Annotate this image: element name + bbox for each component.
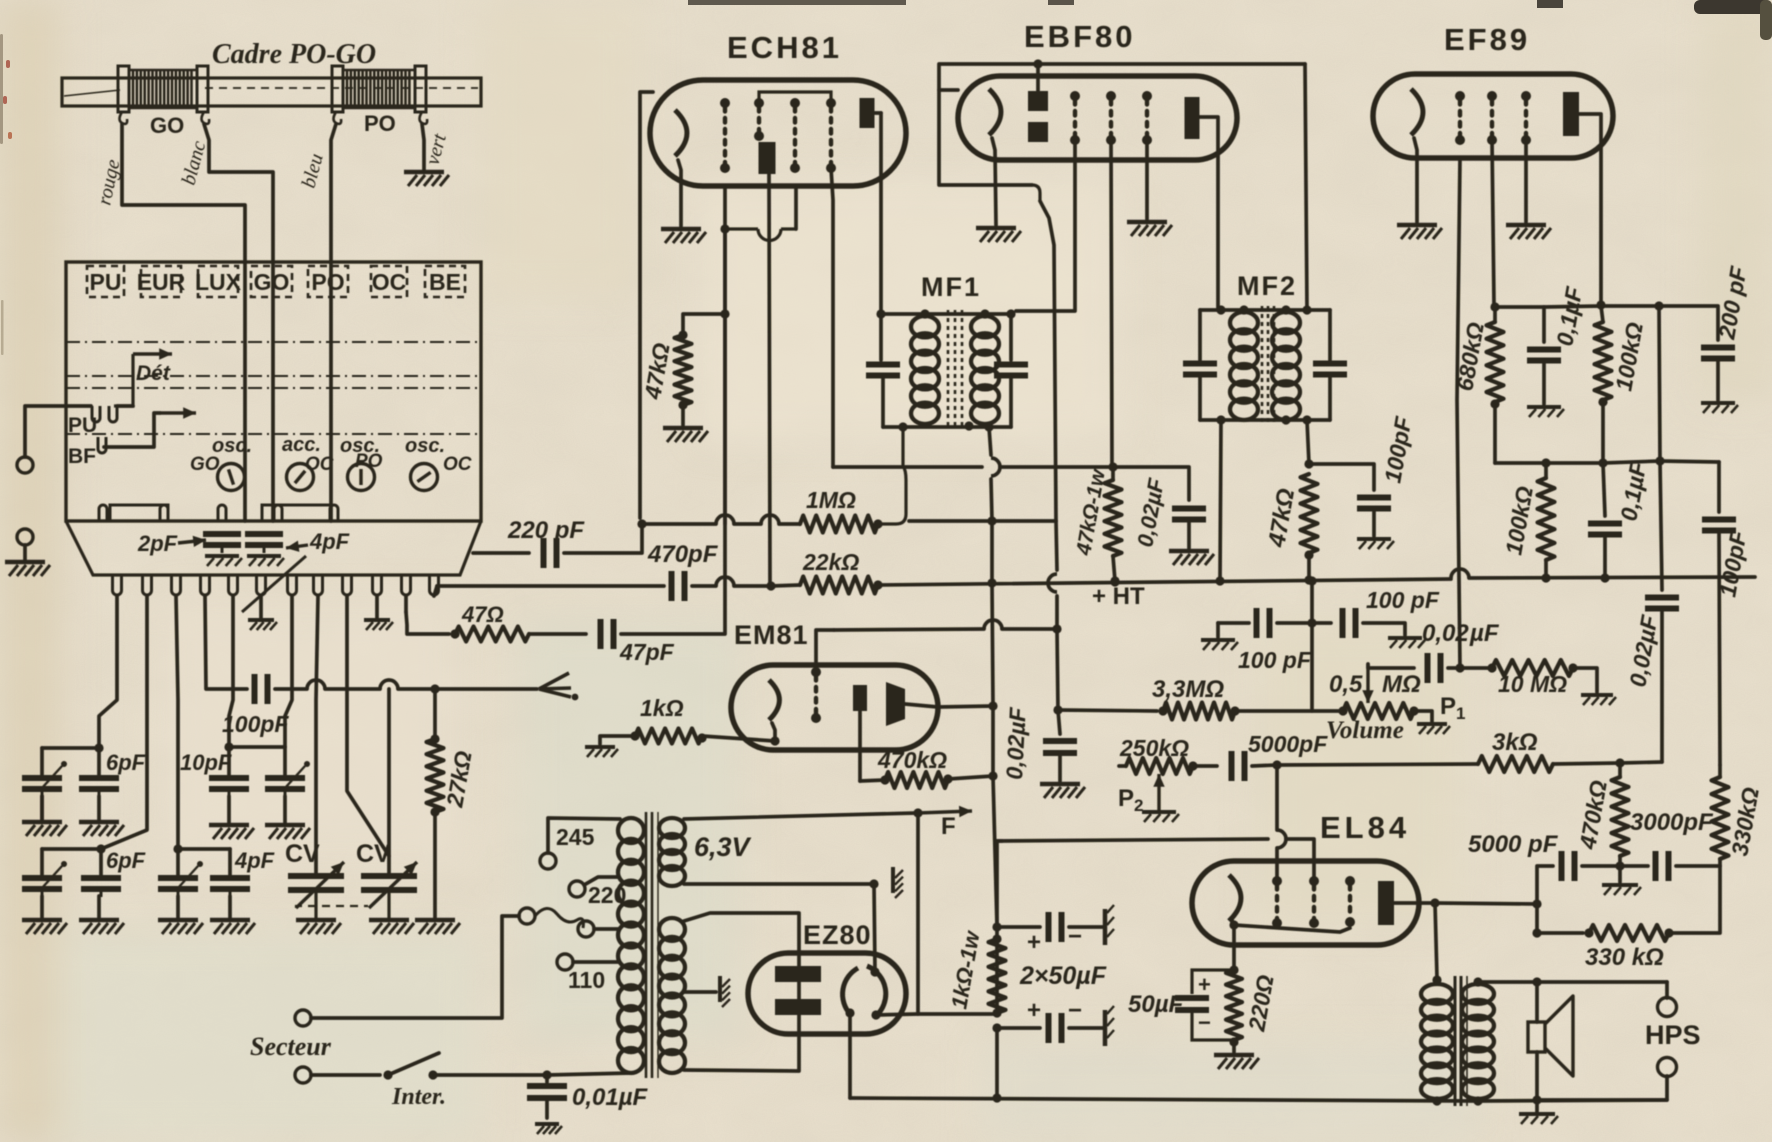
node MF2 bottom right — [1302, 415, 1311, 424]
capacitor MF1 right — [994, 365, 1028, 376]
wire screen line — [833, 465, 982, 469]
wire 50uF bot b — [1069, 1026, 1105, 1030]
svg-text:LUX: LUX — [195, 269, 242, 295]
hop AGC over bus — [1048, 574, 1057, 592]
svg-text:BE: BE — [429, 269, 461, 295]
grid EBF80 g3 — [1142, 91, 1152, 145]
wire row2 left pair — [42, 847, 101, 851]
wire HT bus b — [734, 584, 771, 588]
wire 1k to cathode — [702, 736, 775, 741]
node row1 right — [224, 742, 233, 751]
capacitor 0,1uF lower — [1588, 524, 1622, 535]
resistor 330kOhm fb — [1589, 925, 1669, 941]
wire 0,1uF upper gnd — [1542, 362, 1546, 404]
grid ECH81 g3 — [790, 98, 800, 173]
wire EL84 cathode down — [1232, 925, 1236, 970]
node bus 22k right — [873, 580, 882, 589]
svg-text:470kΩ: 470kΩ — [877, 747, 947, 773]
wire top rail mid — [1544, 306, 1601, 307]
wire EL84 g1 feed — [1275, 765, 1279, 830]
ground 100pF a — [1201, 640, 1238, 650]
node A 470k line — [988, 771, 997, 780]
wire grid line right — [1277, 764, 1478, 765]
svg-text:4pF: 4pF — [309, 529, 350, 554]
wire 100pF left wire — [1218, 621, 1249, 625]
wire 100pF col to 330k — [1718, 765, 1722, 777]
2pF pointer — [178, 536, 206, 547]
ground 0,1uF upper — [1527, 407, 1564, 417]
wire 47pF to ECH81 g1 — [621, 186, 725, 634]
node MF2 47k bottom — [1304, 550, 1313, 559]
node OT primary top — [1432, 975, 1441, 984]
wire 100k anode bottom stub — [1601, 400, 1605, 463]
terminal fuse a — [519, 908, 535, 924]
node 470k g2 top — [1615, 758, 1624, 767]
terminal HPS top — [1658, 998, 1677, 1017]
trimmer arrow c — [42, 866, 62, 888]
svg-text:1MΩ: 1MΩ — [806, 487, 856, 513]
wire osc rail b — [734, 522, 761, 526]
capacitor MF2 right — [1313, 364, 1347, 375]
wire ECH81 g1 down — [723, 229, 727, 314]
wire 470k g2 top stub — [1618, 763, 1622, 777]
svg-text:5000 pF: 5000 pF — [1468, 831, 1559, 858]
wire g2row down — [1310, 581, 1314, 711]
node 680k top — [1490, 302, 1499, 311]
ground speaker line — [1519, 1114, 1558, 1124]
ground 47k — [663, 428, 708, 442]
node row2 left — [96, 844, 105, 853]
svg-text:Inter.: Inter. — [391, 1084, 446, 1110]
svg-text:6pF: 6pF — [106, 750, 146, 775]
node 250k right — [1188, 761, 1197, 770]
wire top rail right — [1601, 304, 1659, 308]
resistor 100kOhm lower — [1538, 478, 1555, 560]
switch unit box — [66, 262, 481, 521]
svg-text:Dét: Dét — [136, 362, 171, 385]
tube EBF80 envelope — [958, 76, 1237, 160]
fluorescent fan EM81 — [886, 682, 905, 726]
node MF1 coil1 top — [920, 309, 929, 318]
trimmer capacitor 6pF b — [79, 778, 119, 797]
ground under pin 261 — [248, 620, 277, 630]
wire pin318 down to CV1 — [316, 596, 318, 874]
node 27k top — [430, 684, 439, 693]
page edge smudges — [688, 0, 906, 5]
node 100k top — [1596, 300, 1605, 309]
resistor 250kOhm P2 — [1126, 758, 1193, 774]
node EL84 anode — [1430, 898, 1439, 907]
node rail 1659 — [1654, 301, 1663, 310]
svg-text:0,01µF: 0,01µF — [572, 1084, 649, 1111]
wire 47k MF2 to bus — [1307, 555, 1311, 580]
core output transformer — [1455, 976, 1467, 1106]
capacitor MF1 left — [866, 365, 900, 376]
wire F down to k — [916, 813, 920, 1014]
wire EBF80 left bracket — [939, 90, 1032, 185]
wire MF2 bottom rail — [1200, 418, 1330, 422]
svg-text:CV: CV — [285, 840, 320, 868]
svg-text:CV: CV — [356, 840, 391, 868]
wire pin117 down — [99, 596, 117, 748]
core mains transformer — [646, 812, 658, 1078]
coil MF1 primary — [911, 316, 939, 424]
trimmer arrow d — [178, 866, 198, 888]
node 680k bottom — [1490, 399, 1499, 408]
wire earth terminal — [23, 545, 27, 560]
wire 1659 down — [1659, 306, 1660, 461]
coil HT secondary — [659, 918, 685, 1073]
node MF1 bottom right — [984, 422, 993, 431]
wafer contact pin 2 — [143, 575, 152, 595]
node F line — [913, 808, 922, 817]
capacitor 470pF — [672, 571, 685, 601]
wire 100k lower to bus — [1544, 560, 1548, 578]
wire 47R to 47pF — [529, 632, 586, 636]
wire MF2 right side b — [1328, 376, 1332, 420]
grid EM81 — [811, 667, 821, 723]
ground 100pF b — [1388, 638, 1425, 648]
terminal 245V — [540, 853, 556, 869]
capacitor 0,1uF upper — [1527, 350, 1561, 361]
wire ground row1 d — [283, 796, 287, 823]
wafer contact pin 5 — [229, 575, 238, 595]
ground row1 b — [79, 822, 124, 836]
resistor 470kOhm g2 — [1612, 777, 1629, 856]
hop MF1 sec over screen line — [991, 458, 1000, 476]
PO left terminal loop — [334, 112, 342, 124]
wire 47k to ground — [681, 405, 685, 425]
svg-text:osc.: osc. — [212, 435, 252, 457]
ground 100pF det — [1357, 539, 1394, 549]
node 1M right — [873, 519, 882, 528]
wire B+ rail down — [995, 1028, 999, 1098]
ground row1 c — [209, 825, 254, 839]
wire 100pF mid — [325, 687, 380, 691]
wire 0,1uF lower feed — [1603, 463, 1605, 516]
cathode EBF80 — [989, 89, 1001, 135]
wafer upper pin 2 — [160, 505, 168, 521]
wire 6,3V top to F — [684, 813, 916, 819]
wire bottom rail b — [1478, 1100, 1667, 1101]
wire vert (PO right to ground) — [422, 124, 424, 170]
wire ECH81 g1 down2 — [723, 314, 727, 524]
node MF2 top left — [1216, 305, 1225, 314]
wire HT bus a2 — [692, 584, 716, 588]
wire EBF80 cathode down — [992, 138, 996, 225]
cathode ECH81 — [675, 110, 687, 156]
wire 100k lower top stub — [1544, 463, 1548, 478]
chassis bar a — [1105, 905, 1114, 945]
resistor 27kOhm — [427, 739, 444, 812]
trimmer capacitor 6pF c — [22, 878, 62, 897]
wire EL84 g1 feed2 — [1275, 848, 1279, 881]
grid ECH81 g4 — [826, 98, 836, 173]
svg-text:100 pF: 100 pF — [1366, 587, 1440, 613]
wafer upper pin 1 — [99, 505, 107, 521]
terminal PU input — [17, 457, 33, 473]
ground tone — [1602, 885, 1641, 895]
capacitor 100pF det — [1357, 498, 1391, 509]
node MF1 top right — [1006, 309, 1015, 318]
wire EM81 grid line b — [1002, 627, 1057, 631]
svg-text:Volume: Volume — [1326, 717, 1404, 744]
wire speaker gnd stub — [1535, 1100, 1539, 1112]
cathode EM81 — [769, 680, 779, 720]
svg-text:MΩ: MΩ — [1382, 671, 1421, 698]
svg-text:PU: PU — [90, 269, 122, 295]
trimmer capacitor 6pF a — [22, 778, 62, 797]
wire EL84 cathode tie — [1232, 920, 1350, 932]
wafer upper pin 5 — [330, 505, 338, 521]
wire 100pF to CV line — [275, 687, 307, 691]
capacitor 100pF osc — [255, 674, 268, 704]
node bus MF1 right — [987, 578, 996, 587]
wire row2 right pair — [178, 847, 230, 851]
node inter b — [428, 1070, 437, 1079]
wire screen line b — [1000, 465, 1113, 469]
svg-text:2pF: 2pF — [137, 531, 178, 556]
node MF1 coil2 top — [980, 309, 989, 318]
wire cap42a tail — [40, 796, 44, 820]
wire AVC to 3M3 — [1058, 710, 1157, 711]
CV2 arrow — [369, 862, 417, 908]
wire MF1 top rail — [881, 312, 1011, 316]
svg-text:100pF: 100pF — [222, 711, 289, 737]
resistor 330kOhm right — [1712, 777, 1729, 859]
coil output transformer secondary — [1462, 984, 1494, 1099]
svg-text:OC: OC — [372, 269, 407, 295]
trimmer arrow a — [42, 766, 62, 788]
wire row1 right pair — [229, 745, 285, 749]
node 27k res bottom — [430, 807, 439, 816]
wire EF89 g3 down — [1524, 140, 1528, 222]
ground EBF80 g3 — [1127, 222, 1172, 236]
wire pin233 down — [229, 596, 233, 747]
resistor 47kOhm-1w — [1105, 480, 1122, 556]
node speaker bottom — [1532, 1095, 1541, 1104]
grid EF89 g2 — [1487, 91, 1497, 145]
resistor 3,3MOhm — [1163, 703, 1235, 720]
wire MF1 right cap feed — [1009, 314, 1013, 360]
node 220R bottom — [1229, 1037, 1238, 1046]
wire to 0,02 right vert — [1620, 762, 1662, 763]
wire heater to EZ80 cathode — [874, 884, 875, 972]
wire 220pF right — [564, 524, 642, 553]
node EZ80 k1 — [870, 967, 879, 976]
switch wafer skirt — [66, 521, 481, 575]
Det arrow — [133, 348, 172, 359]
terminal 110V — [557, 954, 573, 970]
coil MF2 secondary — [1272, 312, 1300, 420]
node volume right — [1409, 706, 1418, 715]
node screen supply — [1108, 462, 1117, 471]
terminal Secteur b — [295, 1067, 311, 1083]
node A em81 line — [988, 701, 997, 710]
wire tone mid gnd — [1618, 866, 1622, 882]
terminal HPS bottom — [1658, 1058, 1677, 1077]
svg-text:+: + — [1027, 929, 1041, 956]
wire speaker feed — [1535, 982, 1539, 1022]
wire 0,1uF upper — [1542, 307, 1546, 342]
wire osc rail c — [779, 522, 800, 526]
svg-text:OC: OC — [305, 454, 334, 475]
ferrite rod — [62, 78, 481, 106]
chassis bar b — [1105, 1006, 1114, 1046]
grid ECH81 g2 — [754, 98, 764, 141]
hop EF89 g1 over bus — [1451, 569, 1469, 578]
wire MF1 right cap down — [1009, 376, 1013, 427]
node bus MF2 47k — [1304, 575, 1313, 584]
variable capacitor CV1 — [288, 876, 344, 918]
capacitor 220pF — [544, 538, 557, 568]
ground EBF80 cathode — [976, 228, 1021, 242]
wire EBF80 anode stub — [1199, 117, 1218, 310]
wire 680k top stub — [1493, 307, 1497, 322]
wire HT top to EZ80 — [684, 913, 799, 966]
grid EF89 g1 — [1455, 91, 1465, 145]
svg-text:−: − — [1068, 997, 1082, 1024]
cathode EZ80 right arc — [867, 966, 886, 1016]
wire EZ80 k left down — [848, 1013, 852, 1098]
node 27k res top — [430, 734, 439, 743]
wire HT center tap — [684, 990, 716, 994]
node cathode RC — [1229, 965, 1238, 974]
wire MF2 right side — [1328, 310, 1332, 360]
node bus MF2 left — [1215, 576, 1224, 585]
capacitor 200pF — [1701, 348, 1735, 359]
cathode EZ80 left arc — [843, 968, 858, 1014]
wire HPS bottom — [1537, 1076, 1667, 1100]
wafer contact pin 7 — [288, 575, 297, 595]
ground EL84 cathode — [1214, 1055, 1259, 1069]
svg-text:0,02: 0,02 — [1422, 620, 1469, 647]
PU contact pin a — [92, 406, 100, 422]
node row1 left — [94, 743, 103, 752]
wire cap230 feed — [228, 849, 232, 876]
switch row line 3 — [66, 387, 481, 389]
wire pin292 down — [285, 596, 292, 747]
trimmer osc OC — [411, 464, 438, 491]
terminal Secteur a — [295, 1010, 311, 1026]
resistor 10MOhm — [1492, 660, 1573, 676]
CV gang dashed link — [296, 906, 368, 908]
wire low row d — [1660, 461, 1719, 462]
wafer contact pin 6 — [257, 575, 266, 595]
wire 250k stub — [1119, 764, 1126, 768]
node 470k left — [880, 775, 889, 784]
ground P2 — [1142, 812, 1179, 822]
wire 100pF b right — [1363, 623, 1405, 635]
node bus 01uF lower — [1600, 573, 1609, 582]
wire cap42a feed — [40, 748, 44, 776]
wire 200pF gnd — [1716, 360, 1720, 400]
wire bottom rail — [850, 1098, 1478, 1101]
svg-text:0,5: 0,5 — [1329, 671, 1363, 698]
wire fb to 330k — [1537, 931, 1583, 935]
wire inter right — [433, 1073, 631, 1075]
resistor 680kOhm — [1487, 322, 1504, 402]
wire 125 tap — [594, 927, 619, 931]
wafer contact pin 4 — [201, 575, 210, 595]
wire EM81 cathode — [772, 723, 775, 741]
node EZ80 k2 — [845, 1008, 854, 1017]
svg-text:5000pF: 5000pF — [1248, 731, 1328, 757]
wafer upper pin 3 — [218, 505, 226, 521]
wire inter left — [311, 1073, 380, 1077]
wire MF1 left cap feed — [879, 314, 883, 360]
svg-text:2×50µF: 2×50µF — [1019, 962, 1107, 990]
resistor 47kOhm (osc grid) — [675, 335, 692, 405]
wire PU terminal — [25, 406, 91, 457]
wire anode right — [1435, 903, 1537, 904]
resistor 3kOhm — [1478, 756, 1553, 772]
svg-text:3,3MΩ: 3,3MΩ — [1152, 676, 1224, 703]
wire cap to EF89 g1 — [1448, 666, 1460, 670]
node 470k right — [943, 774, 952, 783]
ground 27k — [415, 920, 460, 934]
svg-text:EZ80: EZ80 — [803, 920, 872, 950]
hop g1 over g2 line — [1277, 830, 1286, 848]
target plate EM81 — [853, 685, 867, 711]
wire screen to 002 cap — [1113, 467, 1189, 500]
svg-text:acc.: acc. — [282, 434, 321, 456]
svg-text:PO: PO — [364, 111, 396, 136]
wire cap99a feed — [97, 748, 101, 776]
wire MF1 secondary bottom down2 — [991, 479, 992, 521]
resistor 470kOhm EM81 — [885, 772, 948, 788]
core MF1 — [948, 310, 962, 430]
wire HT bus c — [771, 585, 800, 586]
svg-text:HPS: HPS — [1645, 1020, 1701, 1050]
wire rouge (GO left to switch) — [122, 124, 245, 521]
node 10M left — [1487, 663, 1496, 672]
wire 220R to ground — [1232, 1042, 1236, 1052]
svg-text:PO: PO — [355, 451, 383, 472]
trimmer capacitor 4pF a2 — [158, 878, 198, 897]
wire ground cap d — [228, 896, 232, 918]
wire EL84 g2 line — [997, 839, 1268, 841]
trimmer capacitor 4pF — [245, 534, 283, 553]
wire 220pF left — [473, 551, 529, 555]
wire 6,3V bottom — [684, 882, 872, 886]
wire 100pF b left — [1312, 621, 1331, 625]
wire AGC down — [1056, 521, 1057, 570]
wire MF2 sec bottom down — [1307, 420, 1309, 464]
node MF2 top right — [1302, 305, 1311, 314]
anode EF89 — [1563, 92, 1579, 136]
ground 2pF — [205, 556, 242, 566]
wire 100pF a right — [1277, 621, 1312, 625]
wire OT sec top — [1478, 980, 1667, 984]
svg-text:Cadre PO-GO: Cadre PO-GO — [212, 39, 376, 70]
wire 50uF bot — [997, 1026, 1040, 1030]
wire 100pF det — [1309, 464, 1374, 490]
node 3M3 left — [1158, 706, 1167, 715]
node MF1 coil2 bottom — [964, 421, 973, 430]
diode plate EBF80 d1 — [1028, 91, 1048, 111]
node EM81 cathode — [770, 736, 779, 745]
trimmer capacitor 4pF b2 — [210, 878, 250, 897]
node MF2 coil1 top — [1239, 305, 1248, 314]
wire 330k to bracket — [1718, 859, 1722, 866]
capacitor 3000pF — [1656, 851, 1669, 881]
node 47k tap — [720, 309, 729, 318]
node 47k top — [678, 330, 687, 339]
switch row line 4 — [66, 433, 481, 435]
node 3M3 right — [1230, 706, 1239, 715]
wire ECH81 pin jog — [725, 229, 796, 241]
